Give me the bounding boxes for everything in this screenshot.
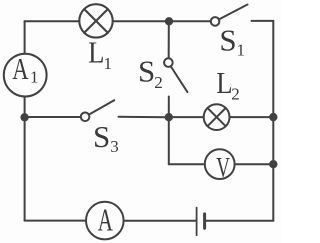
svg-text:2: 2 [154, 73, 163, 92]
label L1 [88, 35, 112, 73]
lamp L2 [204, 104, 230, 130]
label A1 [12, 51, 38, 87]
battery cell [197, 208, 205, 236]
svg-text:L: L [216, 65, 232, 100]
svg-text:L: L [88, 35, 104, 70]
svg-text:1: 1 [104, 54, 113, 73]
label S3 [93, 119, 119, 156]
node junction top [166, 18, 172, 24]
svg-text:1: 1 [30, 68, 39, 87]
wire middle left [25, 116, 81, 118]
svg-text:2: 2 [231, 85, 240, 104]
wire right rail [272, 21, 274, 221]
node right V level [270, 161, 276, 167]
wire A to battery [124, 220, 196, 222]
node right L2 level [270, 114, 276, 120]
label S2 [138, 53, 163, 92]
node left middle [21, 114, 27, 120]
svg-text:A: A [98, 202, 113, 238]
wire top-left segment [25, 20, 79, 22]
label L2 [216, 65, 240, 103]
wire middle to L2 [169, 116, 203, 118]
wire S2 branch upper [168, 21, 170, 58]
switch S2 [164, 58, 187, 117]
lamp L1 [79, 4, 112, 37]
wire L1 to node [114, 20, 170, 22]
wire node to S1 [169, 20, 210, 22]
wire left rail lower [24, 97, 26, 220]
wire V to right rail [235, 163, 273, 165]
label S1 [219, 23, 245, 60]
svg-text:V: V [216, 152, 230, 184]
svg-text:1: 1 [237, 40, 246, 59]
ammeter A [86, 202, 124, 240]
wire left rail upper [24, 21, 26, 53]
wire V branch horizontal [169, 163, 204, 165]
wire bottom left [25, 220, 86, 222]
wire L2 to right rail [230, 116, 273, 118]
svg-text:3: 3 [110, 137, 119, 156]
switch S3 [81, 100, 169, 121]
voltmeter V [205, 149, 235, 179]
svg-text:S: S [93, 119, 110, 154]
wire battery to right rail [206, 220, 273, 222]
switch S1 [211, 5, 273, 26]
ammeter A1 [4, 54, 47, 97]
svg-text:A: A [12, 51, 29, 86]
node middle junction [166, 114, 172, 120]
svg-text:S: S [219, 23, 236, 58]
wire V branch vertical [168, 117, 170, 164]
svg-text:S: S [138, 53, 155, 88]
